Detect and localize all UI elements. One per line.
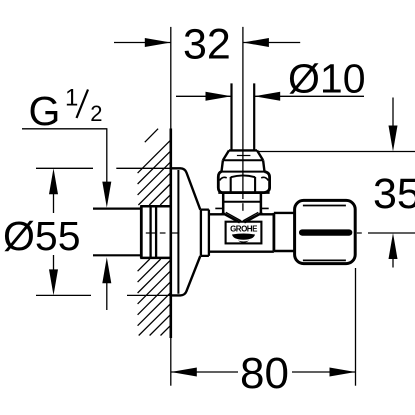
wall surface line [170, 129, 173, 339]
outlet pipe (O10) [230, 83, 232, 150]
G 1/2 leader underline [22, 128, 107, 130]
svg-text:2: 2 [90, 101, 102, 126]
dimension 80: right extension line [355, 268, 357, 386]
fitting center cross dash [237, 155, 251, 157]
svg-text:GROHE: GROHE [230, 225, 258, 234]
dimension 35: bottom extension line [368, 232, 415, 234]
compression fitting hex nut [218, 172, 269, 193]
handle knob [295, 200, 356, 263]
svg-text:Ø10: Ø10 [288, 55, 366, 101]
vertical centerline of outlet pipe [242, 27, 244, 199]
svg-text:80: 80 [240, 349, 289, 398]
svg-text:Ø55: Ø55 [3, 213, 81, 259]
dimension 32: left arrow [145, 38, 171, 47]
dimension 32: dim line right part [243, 42, 300, 44]
dimension O10: dim line left part [176, 95, 232, 97]
handle slot [299, 229, 352, 235]
handle chamfer lines [303, 205, 346, 207]
wall extension line bottom (for 80 dim) [170, 338, 172, 386]
dimension O55: up arrow + shaft [49, 168, 58, 194]
wall collar [140, 206, 171, 258]
dimension O10: right arrow [254, 92, 280, 101]
compression fitting upper cone [222, 150, 265, 171]
dimension O55: down arrow + shaft [49, 269, 58, 295]
valve neck (to handle) [274, 213, 295, 251]
G1/2 threaded tail [93, 208, 141, 210]
valve body bottom edge [209, 250, 274, 252]
body chamfer V lines [222, 212, 262, 222]
dimension 80: dim line right part + arrow [292, 371, 356, 373]
valve body top edges [209, 213, 225, 215]
fitting lower section [215, 193, 268, 214]
dimension O55: top extension line [36, 167, 93, 169]
G 1/2 bottom arrow (up) + tail [102, 257, 111, 283]
GROHE laurel mark [232, 234, 255, 240]
dimension 32: dim line left part [114, 42, 171, 44]
horizontal pipe axis centerline [146, 232, 362, 234]
dimension 35: top extension line [258, 151, 415, 153]
svg-text:32: 32 [183, 21, 231, 69]
dimension 32: right arrow [243, 38, 269, 47]
GROHE logo box [226, 222, 262, 244]
dimension 35: up arrow + shaft [389, 233, 398, 259]
wall hatching [138, 129, 171, 336]
dimension O10: dim line right part [254, 95, 364, 97]
dimension O55: bottom extension line [36, 294, 91, 296]
wall extension line top (for 32 dim) [170, 27, 172, 129]
G 1/2 leader vertical + down arrow [106, 129, 108, 184]
svg-text:1: 1 [65, 85, 78, 112]
dimension 35: down arrow + shaft [392, 98, 394, 128]
dimension O10: left arrow [206, 92, 232, 101]
svg-text:G: G [29, 88, 61, 134]
flange (rosette) cone [171, 168, 209, 295]
svg-text:35: 35 [373, 170, 415, 218]
dimension 80: dim line left part + arrow [171, 371, 238, 373]
